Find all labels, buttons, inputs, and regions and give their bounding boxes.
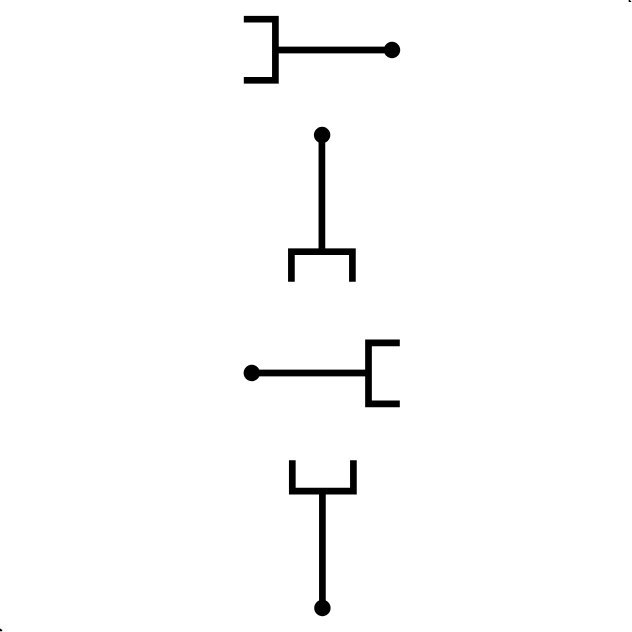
wire: J3 lead: [252, 370, 369, 377]
wire: J1 lead: [275, 47, 392, 54]
connector J2 socket bracket (opens down): [291, 252, 352, 282]
node: J2 terminal dot: [314, 127, 330, 143]
wire: J4 lead: [319, 491, 326, 608]
connector J1 socket bracket (opens left): [244, 19, 276, 80]
connector J4 socket bracket (opens up): [292, 460, 353, 491]
node: J1 terminal dot: [384, 42, 400, 58]
connector J3 socket bracket (opens right): [369, 343, 400, 404]
node: J3 terminal dot: [244, 365, 260, 381]
wire: J2 lead: [319, 135, 326, 252]
node: J4 terminal dot: [314, 600, 330, 616]
